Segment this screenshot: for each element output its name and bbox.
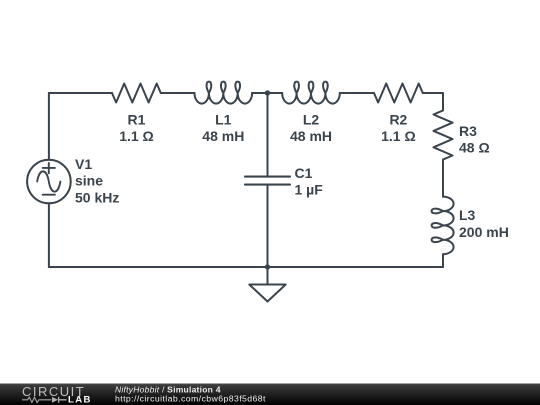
logo diode bbox=[52, 397, 58, 403]
resistor R1 bbox=[112, 84, 161, 103]
wire R1 to L1 bbox=[161, 92, 195, 94]
wire V1 top to top-left corner bbox=[48, 93, 50, 160]
svg-text:C1: C1 bbox=[295, 165, 313, 181]
inductor L3 bbox=[432, 197, 454, 255]
logo resistor zigzag bbox=[22, 397, 51, 402]
wire top-left horizontal bbox=[49, 92, 112, 94]
wire L1 to node A bbox=[252, 92, 282, 94]
wire bottom bbox=[49, 266, 443, 268]
V1 sine wave bbox=[37, 171, 60, 191]
V1 plus sign bbox=[43, 163, 55, 173]
svg-text:R1: R1 bbox=[128, 111, 146, 127]
svg-text:48 mH: 48 mH bbox=[202, 128, 244, 144]
svg-text:1.1 Ω: 1.1 Ω bbox=[381, 128, 416, 144]
svg-text:200 mH: 200 mH bbox=[459, 224, 509, 240]
svg-text:48 Ω: 48 Ω bbox=[459, 140, 490, 156]
svg-text:R3: R3 bbox=[459, 123, 477, 139]
voltage source V1 circle bbox=[27, 160, 71, 204]
ground symbol bbox=[249, 267, 285, 302]
svg-text:50 kHz: 50 kHz bbox=[75, 190, 119, 206]
V1 minus sign bbox=[43, 194, 55, 196]
inductor L2 bbox=[282, 82, 340, 104]
wire bottom-left up to V1 bbox=[48, 203, 50, 267]
node B junction dot bbox=[265, 264, 270, 269]
svg-text:1 µF: 1 µF bbox=[295, 182, 324, 198]
resistor R2 bbox=[374, 84, 423, 103]
svg-text:http://circuitlab.com/cbw6p83f: http://circuitlab.com/cbw6p83f5d68t bbox=[115, 394, 266, 404]
node A junction dot bbox=[265, 90, 270, 95]
wire L3 to bottom-right corner bbox=[442, 254, 444, 267]
capacitor C1 bottom lead bbox=[267, 185, 269, 267]
svg-text:V1: V1 bbox=[75, 156, 92, 172]
svg-text:R2: R2 bbox=[389, 111, 407, 127]
wire R3 to L3 bbox=[442, 160, 444, 197]
capacitor C1 plates bbox=[245, 177, 290, 185]
inductor L1 bbox=[195, 82, 253, 104]
svg-text:L1: L1 bbox=[215, 111, 232, 127]
svg-text:1.1 Ω: 1.1 Ω bbox=[119, 128, 154, 144]
wire L2 to R2 bbox=[340, 92, 374, 94]
svg-text:48 mH: 48 mH bbox=[290, 128, 332, 144]
capacitor C1 top lead bbox=[267, 93, 269, 177]
svg-text:sine: sine bbox=[75, 173, 103, 189]
wire R2 to top-right corner and down bbox=[423, 93, 443, 110]
svg-text:L2: L2 bbox=[303, 111, 320, 127]
resistor R3 bbox=[434, 110, 453, 159]
svg-text:LAB: LAB bbox=[68, 395, 92, 405]
svg-text:L3: L3 bbox=[459, 207, 476, 223]
